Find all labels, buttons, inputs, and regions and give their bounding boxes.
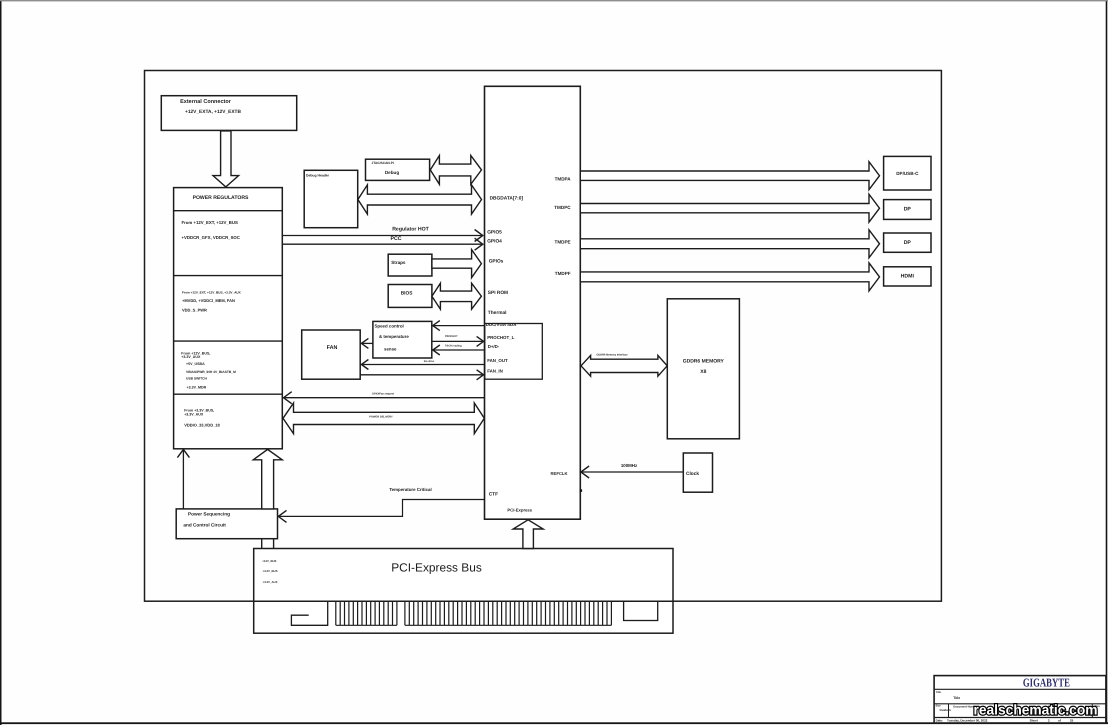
svg-text:PROCHOT_L: PROCHOT_L (487, 335, 514, 340)
svg-text:DP/USB-C: DP/USB-C (896, 171, 919, 176)
svg-text:Speed control: Speed control (375, 324, 404, 329)
svg-text:Straps: Straps (391, 260, 406, 265)
svg-text:of: of (1058, 718, 1061, 722)
pin GPIO5 (487, 229, 502, 235)
pin DBGDATA[7:0] (490, 196, 524, 202)
svg-text:Clock: Clock (686, 471, 699, 477)
svg-text:GDDR6 MEMORY: GDDR6 MEMORY (683, 358, 725, 364)
svg-text:+12V_EXTA, +12V_EXTB: +12V_EXTA, +12V_EXTB (185, 109, 241, 115)
svg-text:Tuesday, December 06, 2022: Tuesday, December 06, 2022 (947, 718, 988, 722)
pin GPIOs (489, 258, 504, 264)
svg-text:GPIO4: GPIO4 (487, 238, 502, 244)
svg-text:POWER REGULATORS: POWER REGULATORS (193, 195, 249, 201)
wire straps bus arrow (432, 250, 482, 278)
wire Temperature Critical (278, 487, 484, 522)
pin Thermal (488, 310, 507, 316)
svg-text:+3.3V_MDR: +3.3V_MDR (187, 385, 207, 389)
block U3 BIOS (388, 285, 432, 308)
block Y1 Clock (683, 453, 712, 492)
PCIe edge connector key notch (291, 601, 327, 625)
svg-text:VDDIO_33,VDD_18: VDDIO_33,VDD_18 (184, 422, 220, 427)
block J6 HDMI (884, 267, 931, 286)
svg-text:PROCHOT: PROCHOT (445, 335, 458, 338)
svg-text:+3.3V_BUS: +3.3V_BUS (263, 569, 278, 573)
block J4 DP (884, 200, 931, 220)
svg-text:VDD_S_PWR: VDD_S_PWR (182, 308, 207, 313)
pin PCI-Express (507, 507, 532, 512)
block Power Sequencing and Control Circuit (176, 509, 277, 539)
svg-text:PCI-Express Bus: PCI-Express Bus (391, 560, 482, 574)
wire PCIe x16 bus arrow (513, 520, 543, 549)
wire TMDPA bus arrow (580, 162, 879, 190)
svg-text:fan drive: fan drive (424, 360, 435, 363)
svg-text:PCI-Express: PCI-Express (507, 507, 532, 512)
wire FAN_IN (360, 370, 483, 380)
wire +12V power feed arrow (213, 131, 239, 187)
svg-text:From +12V_EXT, +12V_BUS: From +12V_EXT, +12V_BUS (182, 220, 238, 225)
svg-text:FAN: FAN (327, 345, 338, 351)
wire TMDPC bus arrow (580, 194, 879, 222)
svg-text:Temperature Critical: Temperature Critical (389, 487, 431, 492)
pin TMDPE (555, 240, 571, 245)
block J1 External Connector (161, 96, 296, 131)
wire DBGDATA bus arrow (358, 185, 482, 214)
wire JTAG debug bus arrow (430, 156, 481, 185)
node pin stub (580, 489, 583, 492)
svg-text:+3.3V_AUX: +3.3V_AUX (263, 580, 278, 584)
svg-text:Date:: Date: (936, 718, 944, 722)
pin GPIO4 (487, 238, 502, 244)
svg-text:External Connector: External Connector (180, 99, 232, 105)
svg-text:25: 25 (1070, 718, 1074, 722)
svg-text:Title: Title (936, 691, 942, 694)
wire GPIO fan request (284, 392, 485, 404)
block J3 DP/USB-C (884, 156, 931, 190)
block U2 JTAG/SCAN-PI Debug (366, 159, 430, 180)
svg-text:Title: Title (953, 696, 960, 700)
svg-text:POWER DELIVERY: POWER DELIVERY (369, 416, 393, 419)
svg-text:TMDPC: TMDPC (554, 205, 571, 210)
svg-text:DBGDATA[7:0]: DBGDATA[7:0] (490, 196, 524, 202)
svg-text:TACH reading: TACH reading (445, 345, 462, 348)
pin TMDPC (554, 205, 571, 210)
svg-text:TMDPF: TMDPF (555, 271, 571, 276)
svg-text:Sheet: Sheet (1030, 718, 1038, 722)
wire sequencing enable (177, 449, 189, 509)
svg-text:From +12V_EXT, +12V_BUS, +3.3V: From +12V_EXT, +12V_BUS, +3.3V_AUX (182, 290, 242, 294)
block U1 GPU (485, 86, 581, 519)
pin TMDPA (555, 176, 572, 181)
svg-text:Regulator HOT: Regulator HOT (392, 226, 429, 232)
svg-text:X8: X8 (700, 369, 706, 375)
block PCI-Express Bus (254, 549, 673, 634)
wire GDDR6 memory bus arrow (581, 354, 667, 377)
svg-text:DP: DP (904, 207, 912, 213)
svg-text:+MVDD, +VDDCI_MEM, FAN: +MVDD, +VDDCI_MEM, FAN (182, 298, 235, 303)
block Straps (388, 254, 432, 276)
PCIe edge connector pins group 1 (336, 601, 397, 625)
svg-text:sense: sense (384, 346, 397, 351)
svg-text:Custom: Custom (940, 708, 951, 712)
svg-text:GPIO/Fan request: GPIO/Fan request (372, 393, 394, 396)
svg-text:realschematic.com: realschematic.com (974, 702, 1098, 718)
svg-text:USB SWITCH: USB SWITCH (186, 377, 207, 381)
value labels regulator section 2 (182, 290, 242, 312)
block J5 DP (884, 233, 931, 252)
value labels regulator section 1 (182, 220, 240, 240)
svg-text:+3.3V_AUX: +3.3V_AUX (181, 355, 201, 359)
svg-text:and Control Circuit: and Control Circuit (183, 522, 226, 527)
wire PROCHOT drive (432, 335, 484, 346)
block J2 Debug Header (304, 170, 358, 227)
wire SPI BIOS bus arrow (432, 283, 482, 309)
wire TMDPE bus arrow (580, 230, 879, 258)
pin CTF (489, 492, 498, 498)
svg-text:TMDPE: TMDPE (555, 240, 571, 245)
wire temp sense return (433, 345, 485, 355)
PCIe edge connector tab (624, 601, 658, 620)
wire power delivery bus arrow (283, 403, 484, 434)
value labels regulator section 4 (184, 409, 220, 428)
block U4 Speed control & temperature sense (373, 321, 432, 358)
value labels regulator section 3 (181, 351, 236, 389)
pin REFCLK (551, 471, 568, 476)
svg-text:REFCLK: REFCLK (551, 471, 568, 476)
svg-text:DP: DP (904, 240, 912, 246)
wire FAN_OUT (361, 360, 484, 370)
wire PCC (283, 236, 483, 250)
svg-text:PCC: PCC (391, 236, 402, 242)
PCIe edge connector pins group 2 (405, 601, 612, 625)
svg-text:FAN_IN: FAN_IN (487, 369, 503, 374)
svg-text:Power Sequencing: Power Sequencing (188, 512, 230, 517)
svg-text:SPI ROM: SPI ROM (488, 290, 508, 296)
svg-text:D+/D-: D+/D- (488, 344, 500, 349)
svg-text:VBIAS/PWR_INH 4V_BIASTB_M: VBIAS/PWR_INH 4V_BIASTB_M (186, 370, 236, 374)
title block frame (934, 676, 1106, 723)
svg-text:Debug Header: Debug Header (306, 173, 330, 177)
svg-text:GPIOs: GPIOs (489, 258, 504, 264)
wire REFCLK 100MHz (581, 463, 683, 478)
pin TMDPF (555, 271, 571, 276)
svg-text:TMDPA: TMDPA (555, 176, 572, 181)
svg-text:& temperature: & temperature (379, 334, 409, 339)
svg-text:BIOS: BIOS (401, 290, 414, 296)
svg-text:GPIO5: GPIO5 (487, 229, 502, 235)
svg-text:+3.3V_AUX: +3.3V_AUX (184, 412, 204, 416)
svg-text:GDDR6 Memory Interface: GDDR6 Memory Interface (596, 354, 628, 357)
GIGABYTE logo text (1023, 676, 1070, 690)
svg-text:+VDDCR_GFX, VDDCR_SOC: +VDDCR_GFX, VDDCR_SOC (182, 235, 240, 240)
wire Regulator HOT (283, 226, 483, 241)
svg-text:Debug: Debug (385, 170, 399, 175)
block U-PWR POWER REGULATORS (174, 188, 283, 449)
svg-text:FAN_OUT: FAN_OUT (487, 358, 508, 363)
realschematic.com watermark (974, 702, 1098, 718)
PCIe edge connector slot top line (254, 600, 673, 602)
svg-text:Thermal: Thermal (488, 310, 507, 316)
wire fan control (361, 338, 373, 348)
svg-text:CTF: CTF (489, 492, 498, 498)
wire DDC sense (433, 321, 485, 331)
svg-text:+5V_USBA: +5V_USBA (186, 362, 205, 366)
thermal sub-block (485, 322, 543, 379)
svg-text:HDMI: HDMI (901, 274, 915, 280)
title block fields (936, 691, 1101, 722)
svg-text:+12V_BUS: +12V_BUS (262, 559, 276, 563)
svg-text:DDC/VGA SDA: DDC/VGA SDA (486, 322, 517, 327)
svg-text:100MHz: 100MHz (621, 463, 638, 468)
block FAN (302, 330, 361, 379)
wire TMDPF bus arrow (580, 263, 879, 291)
svg-text:JTAG/SCAN-PI: JTAG/SCAN-PI (372, 161, 394, 165)
svg-text:GIGABYTE: GIGABYTE (1023, 676, 1070, 690)
wire power good bus arrow (253, 449, 282, 548)
pin SPI ROM (488, 290, 508, 296)
block GDDR6 MEMORY X8 (667, 299, 739, 439)
